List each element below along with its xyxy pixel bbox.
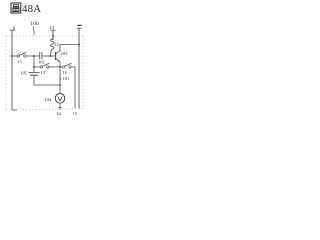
node dot at border crossing (52, 35, 54, 37)
capacitor 102 (39, 52, 41, 59)
switch 13 (left) (17, 55, 19, 57)
emitter wire down (59, 62, 61, 85)
svg-text:13: 13 (17, 59, 21, 64)
wire cap to base node (42, 55, 55, 57)
CJK glyph 圖 drawn manually (11, 3, 21, 13)
switch 103 (right) (60, 66, 62, 68)
node dot at 60,85 (59, 84, 61, 86)
terminal top-right label mark (77, 24, 81, 26)
node dot base (50, 55, 52, 57)
svg-text:103: 103 (61, 51, 68, 56)
leader of 100 (33, 26, 34, 35)
svg-text:16: 16 (63, 70, 67, 75)
capacitor 105 (29, 72, 40, 74)
terminal 11 tick (51, 29, 56, 31)
node dot on right rail (78, 43, 80, 45)
svg-text:101: 101 (63, 76, 69, 81)
wire into circle (59, 85, 61, 94)
terminal tick top-right (77, 27, 82, 29)
wire right switch to corner (71, 67, 75, 108)
node dot emitter/switch (59, 66, 61, 68)
svg-text:102: 102 (38, 59, 45, 64)
right rail wire (78, 28, 80, 108)
svg-text:48A: 48A (22, 3, 41, 15)
dashed box left border (5, 36, 7, 110)
dashed box bottom border (6, 109, 83, 110)
branch down x34 to cap 105 (33, 56, 35, 72)
collector wire up and right (60, 45, 79, 51)
svg-text:105: 105 (20, 70, 27, 75)
resistor 12 (51, 39, 55, 56)
svg-text:13: 13 (41, 70, 45, 75)
V glyph inside (58, 96, 63, 101)
svg-text:104: 104 (44, 97, 51, 102)
source 104 circle (55, 94, 65, 104)
wire mid switch to emitter node (49, 66, 60, 68)
wire cap105 down and right (34, 76, 60, 85)
switch 13 (middle) (40, 66, 42, 68)
wire branch to mid switch (34, 66, 40, 68)
dashed box 100 top border (6, 35, 83, 37)
transistor 101 (55, 52, 57, 60)
terminal 11 wire (52, 30, 54, 40)
left rail wire (11, 30, 13, 110)
title 圖48A (11, 3, 21, 13)
wire circle to terminal 14 (59, 103, 61, 110)
node dot x34 (33, 66, 35, 68)
svg-text:1: 1 (13, 26, 16, 32)
wire switch to cap 102 (26, 55, 39, 57)
label 101 with leader (59, 75, 62, 81)
wire to switch 13 (12, 55, 17, 57)
dashed box right border (82, 36, 84, 109)
node dot main wire / left rail (11, 55, 13, 57)
terminal tick top-left (10, 29, 15, 31)
svg-text:12: 12 (54, 42, 59, 47)
terminal 14 tick (58, 106, 62, 108)
left rail foot on border (12, 109, 17, 111)
svg-text:14: 14 (56, 111, 61, 116)
node dot branch x34 (33, 55, 35, 57)
svg-text:100: 100 (30, 21, 39, 27)
svg-text:15: 15 (72, 111, 77, 116)
